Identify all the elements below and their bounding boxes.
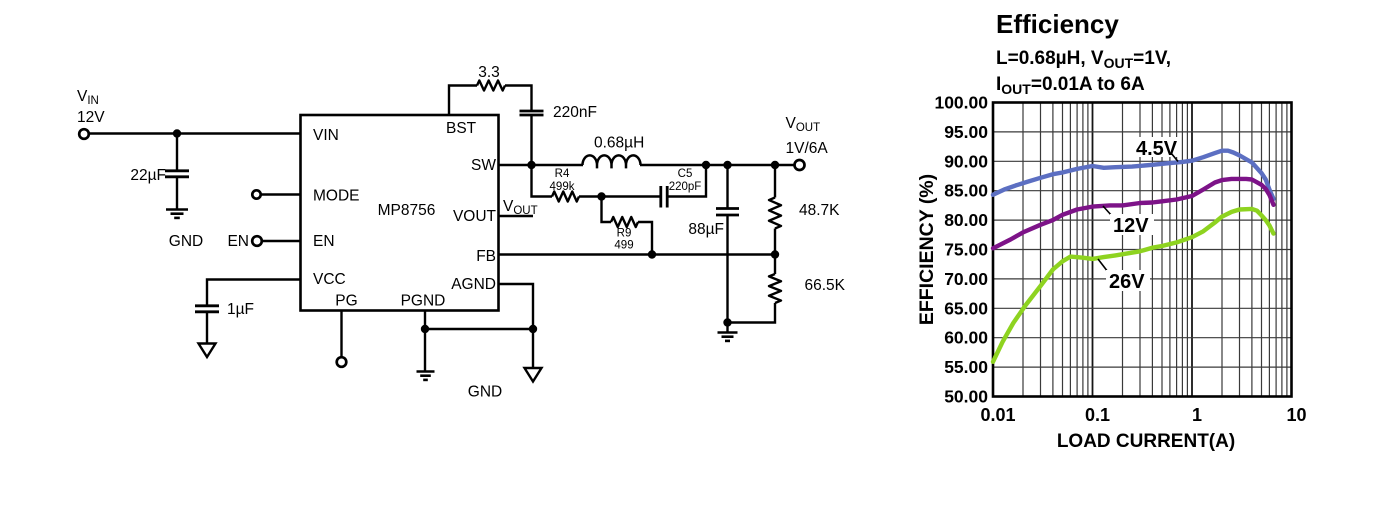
wire divider top (774, 165, 776, 198)
wire 88uF bottom (726, 216, 728, 323)
svg-text:0.01: 0.01 (980, 405, 1015, 425)
svg-text:EFFICIENCY (%): EFFICIENCY (%) (916, 174, 938, 325)
svg-text:220nF: 220nF (553, 104, 597, 121)
chart gridlines (993, 103, 1292, 397)
svg-text:PGND: PGND (401, 293, 446, 310)
wire 1uF to ground (206, 312, 208, 343)
svg-text:MP8756: MP8756 (378, 202, 436, 219)
svg-text:Efficiency: Efficiency (996, 9, 1119, 39)
ground GND3 (PGND) (417, 370, 435, 373)
wire VCC to 1uF (207, 280, 301, 306)
svg-text:65.00: 65.00 (944, 298, 988, 318)
terminal MODE (252, 190, 260, 198)
wire R9 to FB line (638, 222, 652, 255)
junction output node A (702, 161, 710, 169)
svg-text:499: 499 (614, 240, 633, 252)
capacitor C_IN 22uF (165, 169, 189, 172)
svg-text:L=0.68µH, VOUT=1V,: L=0.68µH, VOUT=1V, (996, 48, 1171, 71)
wire VOUT stub (499, 215, 534, 217)
chart border (993, 103, 1292, 397)
svg-text:C5: C5 (678, 168, 693, 180)
curve 12V (purple) (993, 179, 1274, 248)
resistor 3.3 (BST) (477, 81, 505, 91)
svg-text:0.68µH: 0.68µH (594, 135, 644, 152)
svg-text:10: 10 (1286, 405, 1306, 425)
junction FB divider (771, 250, 779, 258)
wire 88uF top (726, 165, 728, 208)
junction output node C (771, 161, 779, 169)
junction R4-C5-R9 node (597, 192, 605, 200)
wire PG (340, 311, 342, 357)
resistor R9 499 (611, 217, 638, 227)
svg-text:12V: 12V (1113, 215, 1149, 237)
ground GND2 (1uF triangle) (199, 344, 216, 358)
wire EN (263, 240, 301, 242)
wire divider bottom to ground (728, 303, 776, 323)
svg-text:0.1: 0.1 (1085, 405, 1110, 425)
terminal VIN (79, 129, 89, 139)
svg-text:LOAD CURRENT(A): LOAD CURRENT(A) (1057, 431, 1235, 452)
resistor R4 499k (552, 192, 579, 202)
wire R bst to C bst (505, 86, 532, 111)
capacitor C_BST 220nF (520, 110, 544, 113)
capacitor C_OUT 88uF (716, 207, 739, 210)
junction output ground (723, 318, 731, 326)
capacitor C5 220pF (659, 186, 662, 208)
wire inductor to output terminal (640, 164, 795, 166)
terminal VOUT (795, 160, 805, 170)
resistor 48.7K (769, 198, 781, 229)
svg-text:FB: FB (476, 248, 496, 265)
svg-text:66.5K: 66.5K (805, 277, 846, 294)
wire 22uF top (176, 134, 178, 171)
wire between divider resistors (774, 229, 776, 275)
svg-text:EN: EN (227, 233, 249, 250)
label VIN net (77, 64, 846, 401)
svg-text:85.00: 85.00 (944, 181, 988, 201)
label 12V (1103, 206, 1112, 216)
terminal EN (252, 236, 262, 246)
wire node down to R9 (602, 197, 612, 223)
inductor L1 0.68uH (583, 155, 641, 168)
wire BST up and to R bst (449, 86, 477, 116)
junction PGND (421, 325, 429, 333)
svg-text:R4: R4 (555, 168, 570, 180)
ground GND5 (output) (718, 331, 738, 334)
svg-text:VOUT: VOUT (503, 198, 538, 217)
svg-text:220pF: 220pF (669, 181, 702, 193)
junction VIN node (173, 129, 181, 137)
svg-text:1µF: 1µF (227, 301, 254, 318)
terminal PG (337, 357, 347, 367)
wire C5 to output node (668, 165, 706, 197)
svg-text:4.5V: 4.5V (1136, 138, 1178, 160)
svg-text:R9: R9 (617, 228, 632, 240)
svg-text:IOUT=0.01A to 6A: IOUT=0.01A to 6A (996, 74, 1145, 97)
resistor 66.5K (769, 274, 781, 303)
wire VIN input to IC (90, 132, 301, 134)
svg-text:12V: 12V (77, 109, 105, 126)
svg-text:26V: 26V (1109, 271, 1145, 293)
svg-text:70.00: 70.00 (944, 269, 988, 289)
junction R9-FB (648, 250, 656, 258)
svg-text:EN: EN (313, 233, 335, 250)
svg-text:60.00: 60.00 (944, 328, 988, 348)
wire PGND down (424, 311, 426, 372)
svg-text:3.3: 3.3 (478, 64, 500, 81)
wire output ground stub (726, 323, 728, 333)
curve 26V (green) (993, 209, 1274, 362)
svg-text:GND: GND (468, 384, 502, 401)
svg-text:1V/6A: 1V/6A (786, 140, 829, 157)
svg-text:75.00: 75.00 (944, 240, 988, 260)
svg-text:95.00: 95.00 (944, 122, 988, 142)
wire SW node down to R4 (532, 165, 553, 197)
wire R4 to node (579, 195, 660, 197)
curve 4.5V (blue) (993, 151, 1274, 199)
wire AGND triangle stub (532, 329, 534, 368)
svg-text:VCC: VCC (313, 271, 346, 288)
wire 22uF bottom (176, 178, 178, 210)
label 4.5V (1133, 137, 1180, 157)
junction AGND (529, 325, 537, 333)
label 26V (1098, 259, 1108, 272)
svg-text:499k: 499k (550, 181, 575, 193)
wire AGND (499, 284, 534, 329)
svg-text:MODE: MODE (313, 188, 360, 205)
junction output node B (723, 161, 731, 169)
wire PGND to AGND ground (425, 328, 533, 330)
svg-text:22µF: 22µF (130, 167, 166, 184)
svg-text:48.7K: 48.7K (799, 202, 840, 219)
wire C bst to SW node (530, 116, 532, 166)
svg-text:VIN: VIN (77, 88, 99, 107)
svg-text:VIN: VIN (313, 127, 339, 144)
wire SW to inductor (499, 164, 584, 166)
svg-text:VOUT: VOUT (453, 208, 497, 225)
svg-text:SW: SW (471, 157, 496, 174)
svg-text:BST: BST (446, 120, 477, 137)
svg-text:55.00: 55.00 (944, 357, 988, 377)
capacitor C_VCC 1uF (195, 304, 219, 307)
wire FB (499, 253, 776, 255)
svg-text:50.00: 50.00 (944, 387, 988, 407)
junction SW node (527, 161, 535, 169)
ground GND4 (AGND triangle) (525, 368, 542, 382)
svg-text:100.00: 100.00 (934, 93, 988, 113)
IC U1 MP8756 (301, 115, 499, 311)
svg-text:80.00: 80.00 (944, 210, 988, 230)
ground GND1 (22uF) (166, 208, 188, 211)
svg-text:1: 1 (1192, 405, 1202, 425)
svg-text:GND: GND (169, 233, 203, 250)
svg-text:PG: PG (335, 293, 357, 310)
svg-text:88µF: 88µF (688, 221, 724, 238)
wire MODE (261, 193, 301, 195)
svg-text:VOUT: VOUT (786, 115, 821, 134)
svg-text:AGND: AGND (451, 276, 496, 293)
svg-text:90.00: 90.00 (944, 151, 988, 171)
